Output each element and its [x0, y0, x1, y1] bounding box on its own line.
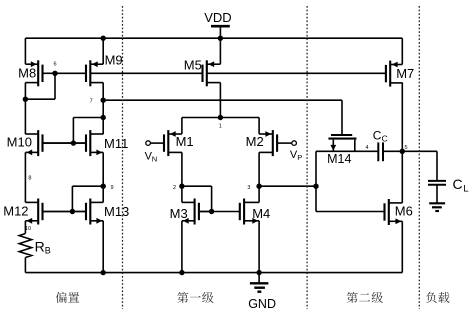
- svg-text:M12: M12: [3, 204, 28, 219]
- transistor M12: [3, 199, 86, 225]
- wire node 1 down to M2 drain: [258, 118, 260, 135]
- svg-text:M11: M11: [104, 136, 128, 151]
- wire node 3 column vertical to M14 wire and M6 gate: [315, 151, 317, 211]
- wire M10 source down to M12 drain: [24, 152, 26, 202]
- node 6: [52, 61, 57, 76]
- svg-text:M5: M5: [184, 58, 202, 73]
- transistor M7: [386, 61, 414, 87]
- node M8 drain junction: [23, 97, 28, 102]
- wire M14 source-drain bus to compensation cap: [316, 150, 377, 152]
- svg-text:VDD: VDD: [204, 10, 231, 25]
- wire resistor to ground rail: [24, 258, 26, 273]
- wire M12-M13 gate line: [43, 211, 87, 213]
- transistor M4: [240, 199, 270, 225]
- wire M5 source from rail: [219, 38, 221, 64]
- svg-text:N: N: [152, 155, 157, 164]
- power terminal VDD: [204, 10, 231, 38]
- svg-text:C: C: [373, 128, 382, 142]
- svg-text:10: 10: [25, 226, 31, 232]
- svg-text:M8: M8: [18, 65, 36, 80]
- svg-text:B: B: [45, 246, 51, 256]
- node M3-M4 gate junction: [209, 209, 214, 214]
- transistor M9: [86, 53, 123, 87]
- section divider dashed line 2: [306, 6, 308, 309]
- node 3: [247, 184, 261, 191]
- node M12-M13 gate line junction: [70, 209, 75, 214]
- svg-text:M13: M13: [104, 204, 129, 219]
- node M11 gate-drain tie junction: [101, 115, 106, 120]
- wire node 7 bus drop to M14 gate: [341, 100, 343, 134]
- svg-text:M10: M10: [7, 135, 32, 150]
- wire top VDD rail: [25, 37, 402, 39]
- section divider dashed line 1: [122, 6, 124, 309]
- transistor M14 MOS capacitor: [327, 135, 356, 166]
- ground under CL: [429, 185, 445, 211]
- svg-text:R: R: [35, 238, 45, 254]
- svg-text:M7: M7: [396, 66, 414, 81]
- transistor M3: [170, 199, 212, 225]
- transistor M11: [86, 130, 128, 156]
- section divider dashed line 3: [418, 6, 420, 309]
- section label diyiji (first stage): [177, 292, 213, 303]
- svg-text:GND: GND: [248, 297, 276, 311]
- node VDD junction at M5 source column: [218, 36, 223, 41]
- wire M6 source down to rail end: [401, 221, 403, 272]
- wire M8 diode connection down and left: [25, 73, 55, 99]
- wire M9 source column down to M11 drain: [102, 83, 104, 135]
- section label fuzai (load): [426, 292, 449, 303]
- svg-text:C: C: [382, 133, 388, 143]
- node rail junction M3: [179, 270, 184, 275]
- wire M6 gate line: [316, 211, 385, 213]
- wire M1 source down through node 2 to M3 drain: [181, 152, 183, 202]
- wire M4 source down to rail: [258, 221, 260, 273]
- wire M13 diode loop: [72, 186, 103, 211]
- node rail junction M13 source: [101, 270, 106, 275]
- svg-text:6: 6: [53, 61, 56, 67]
- transistor M13: [86, 199, 129, 225]
- transistor M8: [18, 60, 55, 86]
- resistor RB: [19, 234, 51, 258]
- node rail junction M4 and GND: [256, 270, 261, 275]
- svg-text:M4: M4: [252, 206, 270, 221]
- node 9: [101, 184, 114, 192]
- svg-text:C: C: [453, 176, 463, 192]
- wire node 3 to second stage: [259, 185, 316, 187]
- wire M8 drain column down to M10 drain: [24, 83, 26, 135]
- node 2: [173, 184, 185, 191]
- wire gate bus from M5 to M7 gate: [207, 72, 386, 74]
- svg-text:3: 3: [247, 185, 250, 191]
- wire M12 source down to resistor: [24, 221, 26, 234]
- svg-text:M2: M2: [246, 134, 264, 149]
- svg-text:M9: M9: [105, 53, 123, 68]
- svg-text:2: 2: [173, 185, 176, 191]
- node top-rail junction at M9 drain column: [101, 36, 106, 41]
- wire M11 source down to M13 drain: [102, 152, 104, 202]
- section label pianzhi (bias): [56, 292, 79, 303]
- ground GND symbol: [248, 273, 276, 311]
- wire M5 drain down to node 1: [219, 83, 221, 118]
- wire gate bus from M9 to M5 gate: [90, 72, 203, 74]
- wire M7 source drop from rail right end: [401, 38, 403, 64]
- transistor M5: [184, 58, 221, 87]
- svg-text:9: 9: [110, 185, 113, 191]
- wire node 1 tail line: [182, 117, 259, 119]
- node 5: [400, 145, 408, 154]
- terminal VN input: [145, 141, 158, 164]
- wire M2 source down through node 3 to M4 drain: [258, 152, 260, 202]
- svg-text:M3: M3: [170, 206, 188, 221]
- wire M3 source down to rail: [181, 221, 183, 273]
- transistor M10: [7, 130, 86, 156]
- wire M7 drain down through node 5 to M6 drain: [401, 82, 403, 202]
- node M10-M11 gate line junction: [71, 140, 76, 145]
- wire M8 drain up to rail: [24, 38, 26, 64]
- capacitor CC: [373, 128, 388, 161]
- wire CC to node 5: [383, 150, 437, 152]
- terminal VP input: [290, 141, 302, 162]
- svg-text:5: 5: [404, 145, 407, 151]
- capacitor CL: [428, 176, 468, 194]
- wire node 2 loop to M3-M4 gate line: [182, 186, 212, 211]
- svg-text:7: 7: [90, 98, 93, 104]
- transistor M1: [150, 130, 193, 156]
- wire bottom ground rail: [25, 272, 402, 274]
- node 1: [218, 115, 223, 130]
- svg-text:M1: M1: [176, 134, 194, 149]
- wire node 1 down to M1 drain: [181, 118, 183, 135]
- wire node 7 bus to second stage: [103, 99, 342, 101]
- svg-text:M6: M6: [395, 203, 413, 218]
- node 7: [90, 98, 106, 105]
- wire M11 diode loop: [73, 118, 103, 144]
- transistor M2: [246, 130, 292, 156]
- transistor M6: [385, 199, 413, 225]
- wire gate bus node 6 from M8 gate to M9 gate: [55, 72, 86, 74]
- svg-text:L: L: [463, 184, 468, 195]
- svg-text:P: P: [297, 153, 302, 162]
- wire M13 source down to rail: [102, 221, 104, 273]
- wire M10-M11 gate line: [43, 142, 87, 144]
- svg-text:M14: M14: [327, 152, 351, 166]
- wire M3-M4 gate line: [199, 211, 240, 213]
- svg-text:4: 4: [365, 145, 368, 151]
- section label dierji (second stage): [347, 292, 383, 303]
- svg-text:8: 8: [28, 176, 31, 182]
- wire M9 drain up to rail: [102, 38, 104, 64]
- wire node 5 to load cap: [436, 151, 438, 180]
- svg-text:1: 1: [219, 124, 222, 130]
- node 3 branch junction: [313, 184, 318, 189]
